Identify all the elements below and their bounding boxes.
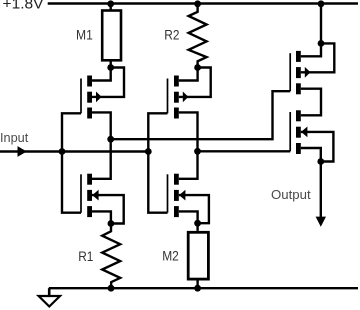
wire: node B2 down to Q4 drain <box>179 151 198 179</box>
wire: Q5 drain to node A3 <box>301 43 321 56</box>
input arrowhead <box>18 146 27 157</box>
resistor R1 (zigzag) <box>102 224 120 289</box>
node: input/gate-2 junction dot <box>145 148 152 155</box>
output wire with arrowhead <box>316 162 326 227</box>
svg-text:Output: Output <box>271 188 311 202</box>
svg-text:+1.8V: +1.8V <box>3 0 44 13</box>
wire: Q6 source to node C3 <box>301 148 321 162</box>
wire: input node down to Q2 gate <box>62 152 81 213</box>
wire: Q2 source to node C1 <box>92 211 111 223</box>
transistor Q3 PMOS (stage 2 top) <box>168 76 189 119</box>
wire: Q3 bulk to node A2 <box>179 68 211 97</box>
node B2 dot <box>194 148 201 155</box>
wire: Q1 bulk to node A1 <box>92 68 124 97</box>
+1.8V supply rail <box>48 2 358 4</box>
svg-text:M1: M1 <box>76 26 93 42</box>
node B1 dot <box>107 136 114 143</box>
node C1 dot <box>108 220 115 227</box>
node A1 dot (below M1) <box>107 64 114 71</box>
node: R1/ground-rail junction dot <box>108 285 115 292</box>
transistor Q6 NMOS (output stage bottom) <box>290 110 307 154</box>
wire: node B2 to Q6 gate (horizontal) <box>198 150 291 152</box>
node C3 dot <box>317 158 324 165</box>
transistor Q5 PMOS (output stage top) <box>290 51 310 94</box>
resistor R2 (zigzag) <box>189 4 207 68</box>
wire: Q2 bulk to node C1 <box>92 195 124 223</box>
wire: Q6 bulk to node C3 <box>301 132 334 162</box>
node: input/gate-1 junction dot <box>59 148 66 155</box>
wire: Q1 gate to input node <box>62 113 81 151</box>
wire: node B1 down to Q2 drain <box>92 139 111 179</box>
wire: node B1 to Q5 gate (horizontal) <box>111 91 291 139</box>
svg-text:Input: Input <box>0 131 29 145</box>
wire: Q4 source to node C2 <box>179 211 198 223</box>
transistor Q2 NMOS (stage 1 bottom) <box>81 174 99 217</box>
wire: Q3 source down to node B2 <box>179 112 198 151</box>
wire: M2 bottom to ground rail <box>196 280 198 288</box>
wire: gate-2 node down to Q4 gate <box>148 152 167 213</box>
input wire <box>0 150 148 152</box>
node A3 dot <box>318 40 325 47</box>
wire: VDD down to node A3 <box>320 4 322 44</box>
wire: Q5 bulk to node A3 <box>301 43 335 72</box>
svg-text:R2: R2 <box>164 27 179 43</box>
node: VDD junction dot above M1 <box>107 0 114 7</box>
wire: VDD to M1 top <box>109 4 111 11</box>
node C2 dot <box>194 220 201 227</box>
wire: M1 bottom to node A1 <box>109 60 111 67</box>
resistor M2 (box symbol) <box>188 232 208 279</box>
node A2 dot (below R2) <box>194 64 201 71</box>
wire: Q4 bulk to node C2 <box>179 195 209 223</box>
transistor Q4 NMOS (stage 2 bottom) <box>168 174 186 217</box>
ground symbol <box>39 288 60 306</box>
wire: Q3 drain to node A2 <box>179 68 198 81</box>
svg-text:R1: R1 <box>78 248 93 264</box>
wire: node C2 to M2 top <box>196 223 198 231</box>
svg-text:M2: M2 <box>162 248 179 264</box>
node: VDD junction dot above output stage <box>318 0 325 7</box>
node: M2/ground-rail junction dot <box>194 285 201 292</box>
wire: Q1 drain to node A1 <box>92 68 111 81</box>
wire: Q3 gate to gate-2 node <box>148 113 167 151</box>
wire: Q5 source down to Q6 drain <box>301 89 321 116</box>
resistor M1 (box symbol) <box>102 11 121 61</box>
transistor Q1 PMOS (stage 1 top) <box>81 76 102 119</box>
node: VDD junction dot above R2 <box>194 0 201 7</box>
ground rail <box>49 287 358 289</box>
wire: Q1 source down to node B1 <box>92 112 111 139</box>
